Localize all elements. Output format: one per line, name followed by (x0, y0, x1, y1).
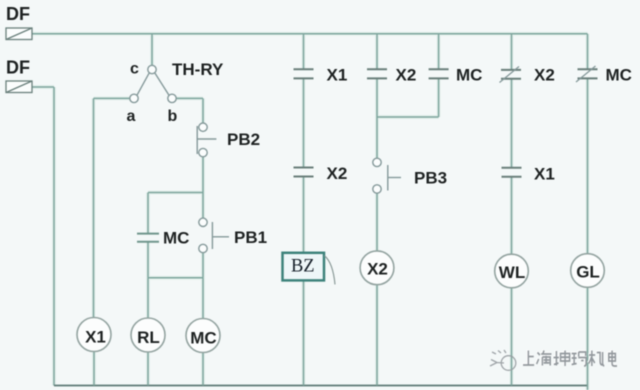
svg-text:X2: X2 (396, 66, 417, 85)
svg-text:X2: X2 (534, 66, 555, 85)
svg-text:X1: X1 (85, 328, 106, 347)
svg-text:a: a (127, 108, 136, 125)
svg-text:RL: RL (137, 328, 160, 347)
svg-text:X2: X2 (367, 260, 388, 279)
svg-text:MC: MC (190, 329, 216, 348)
svg-text:PB2: PB2 (227, 130, 260, 149)
svg-text:b: b (168, 108, 178, 125)
svg-text:c: c (130, 61, 139, 78)
svg-text:X1: X1 (327, 66, 348, 85)
svg-text:MC: MC (163, 229, 189, 248)
svg-text:X1: X1 (534, 165, 555, 184)
svg-text:BZ: BZ (291, 257, 315, 277)
svg-text:PB1: PB1 (234, 228, 267, 247)
svg-text:TH-RY: TH-RY (172, 60, 224, 79)
svg-text:DF: DF (6, 58, 30, 78)
svg-text:GL: GL (576, 263, 600, 282)
svg-text:MC: MC (456, 66, 482, 85)
svg-text:WL: WL (499, 263, 525, 282)
svg-text:PB3: PB3 (414, 169, 447, 188)
svg-text:MC: MC (606, 66, 632, 85)
svg-text:X2: X2 (327, 164, 348, 183)
svg-text:DF: DF (6, 4, 30, 24)
